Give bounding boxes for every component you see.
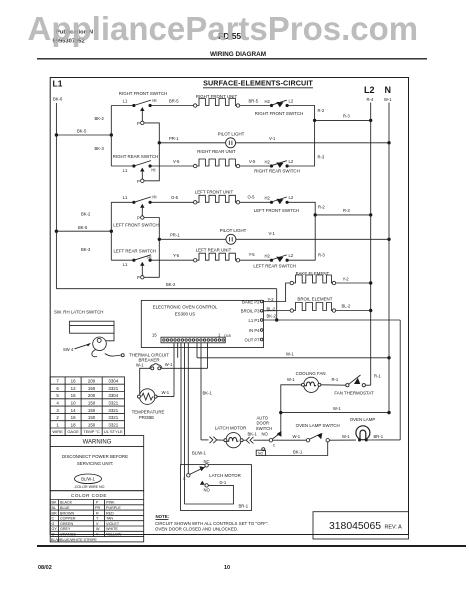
svg-text:W-1: W-1 [136,363,144,368]
svg-text:16: 16 [71,393,76,398]
svg-text:TEMPERATURE: TEMPERATURE [132,410,165,415]
svg-text:BLUE/WHITE STRIPE: BLUE/WHITE STRIPE [60,538,97,542]
wire R-3 left group to L2 bus [315,214,371,216]
left front switch left half [111,195,159,240]
wire V-5 to right rear unit [150,165,195,167]
latch NO contact [200,481,205,485]
svg-text:GREEN: GREEN [60,522,73,526]
svg-text:SERVICING UNIT:: SERVICING UNIT: [77,461,113,466]
svg-text:5: 5 [56,393,59,398]
svg-text:BK-2: BK-2 [81,212,91,217]
svg-text:L1: L1 [53,79,63,89]
svg-text:P: P [137,215,140,220]
svg-text:RIGHT FRONT SWITCH: RIGHT FRONT SWITCH [119,91,167,96]
svg-text:BLUE: BLUE [60,506,70,510]
svg-text:G: G [52,522,55,526]
svg-text:WHITE: WHITE [106,527,118,531]
svg-text:BK: BK [52,501,57,505]
bake element [290,271,336,284]
svg-text:OUT P7: OUT P7 [244,337,260,342]
wire V-5 to H2 rear [240,165,272,167]
svg-text:4: 4 [56,401,59,406]
svg-text:O: O [52,533,55,537]
wire Y-5 to H2 left rear [240,259,272,261]
svg-text:18: 18 [71,422,76,427]
latch motor M1 [215,426,247,448]
svg-text:1: 1 [56,422,59,427]
svg-text:L2: L2 [289,195,294,200]
svg-text:PURPLE: PURPLE [106,506,121,510]
wire harness drop 7 BK-1 latch motor [200,343,202,440]
svg-text:BR-5: BR-5 [249,99,259,104]
svg-text:UL STYLE: UL STYLE [104,429,123,434]
svg-text:V-1: V-1 [269,231,276,236]
svg-text:SURFACE-ELEMENTS-CIRCUIT: SURFACE-ELEMENTS-CIRCUIT [203,79,313,88]
warning box [50,436,144,491]
svg-text:N: N [385,85,392,95]
node PR-1 junction [158,141,161,144]
svg-text:L1: L1 [123,98,128,103]
svg-text:V-1: V-1 [269,136,276,141]
part number box 318045065 REV: A [313,512,409,539]
svg-text:R-1: R-1 [332,377,339,382]
svg-text:NO: NO [262,432,269,437]
svg-text:WIRING DIAGRAM: WIRING DIAGRAM [210,51,266,58]
wire R-3 left rear riser [287,215,315,260]
svg-text:150: 150 [88,422,96,427]
svg-text:PR-1: PR-1 [170,232,180,237]
svg-text:GREY: GREY [60,527,71,531]
svg-text:R: R [96,511,99,515]
wire harness drop 8 to breaker [207,343,209,369]
svg-text:LEFT FRONT UNIT: LEFT FRONT UNIT [195,190,234,195]
svg-text:15: 15 [152,333,157,338]
svg-text:T: T [96,517,99,521]
svg-text:LEFT FRONT SWITCH: LEFT FRONT SWITCH [113,223,158,228]
electronic oven control U1 box [141,300,263,347]
svg-text:YELLOW: YELLOW [106,533,122,537]
svg-text:R-4: R-4 [367,97,374,102]
svg-text:10: 10 [71,401,76,406]
latch blade C [187,474,190,477]
svg-text:BL: BL [52,506,57,510]
wire harness drop 2 [177,343,179,358]
svg-text:V-5: V-5 [249,159,256,164]
svg-text:-COLOR WIRE NO: -COLOR WIRE NO [74,485,105,489]
svg-text:ES300 US: ES300 US [175,312,196,317]
svg-text:H2: H2 [265,254,271,259]
wire PR-1 / V-1 pilot 1 [159,142,389,144]
wire group2 riser [110,202,112,260]
wire latch NO loop [185,485,234,504]
wire thermostat to L2 bus [365,384,370,386]
svg-text:R-3: R-3 [318,253,325,258]
wire R-3 to L2 bus [315,119,371,121]
broil element [290,297,336,313]
svg-text:BROIL P3: BROIL P3 [241,309,260,314]
svg-text:150: 150 [88,401,96,406]
right rear switch left half [111,143,159,184]
svg-text:C: C [273,443,276,447]
svg-text:OVEN DOOR CLOSED AND UNLOCKED.: OVEN DOOR CLOSED AND UNLOCKED. [155,527,238,532]
svg-text:08/02: 08/02 [38,565,52,571]
left rear switch left half [111,239,159,280]
svg-text:ELECTRONIC OVEN CONTROL: ELECTRONIC OVEN CONTROL [153,305,218,310]
svg-text:150: 150 [88,415,96,420]
wire O-5 to left front unit [150,201,195,203]
node PR-1 junction 2 [158,238,161,241]
svg-text:BK-2: BK-2 [166,282,176,287]
wire fan left riser W-1 [281,385,302,413]
svg-text:BR-5: BR-5 [169,98,179,103]
svg-text:BL-2: BL-2 [342,304,352,309]
svg-text:P: P [96,501,99,505]
wire auto door to lamp switch [273,439,307,441]
svg-text:OVEN LAMP SWITCH: OVEN LAMP SWITCH [296,423,340,428]
svg-text:LATCH MOTOR: LATCH MOTOR [209,473,241,478]
svg-text:BK-1: BK-1 [293,450,303,455]
latch NC contact [205,464,208,467]
svg-text:PR: PR [95,506,100,510]
wire BK-5 tap 2 [56,230,111,232]
svg-text:LEFT FRONT SWITCH: LEFT FRONT SWITCH [254,208,299,213]
wire Y-2 bake to EOC [264,283,291,302]
svg-text:TAN: TAN [106,517,113,521]
connector plug arrows right [243,439,246,441]
publication number text [53,30,242,45]
svg-text:W-1: W-1 [293,434,301,439]
svg-text:7: 7 [56,379,59,384]
RH latch switch sketch [54,310,124,357]
svg-text:PILOT LIGHT: PILOT LIGHT [218,132,245,137]
fan thermostat [334,375,374,396]
svg-text:TEMP °C: TEMP °C [83,429,100,434]
svg-text:PILOT LIGHT: PILOT LIGHT [220,228,247,233]
svg-text:H2: H2 [265,196,271,201]
svg-text:NC: NC [204,459,210,464]
svg-text:10: 10 [224,565,230,571]
wire harness drop 5 to latch blade [187,343,189,474]
outer diagram border [50,78,408,535]
wire BK-1 NC bypass [265,442,327,456]
svg-text:LEFT REAR UNIT: LEFT REAR UNIT [196,248,232,253]
svg-text:Y-2: Y-2 [268,297,275,302]
svg-text:200: 200 [88,379,96,384]
svg-text:GAGE: GAGE [67,429,79,434]
svg-text:W-1: W-1 [342,434,350,439]
svg-text:BK-5: BK-5 [77,129,87,134]
svg-text:200: 200 [88,393,96,398]
wire R-2 left group [287,202,315,215]
svg-text:SW. RH LATCH SWITCH: SW. RH LATCH SWITCH [54,310,103,315]
svg-text:R-3: R-3 [343,208,350,213]
svg-text:CIRCUIT SHOWN WITH ALL CONTROL: CIRCUIT SHOWN WITH ALL CONTROLS SET TO "… [155,521,269,526]
wire harness drop 4 to latch NO loop [184,343,186,504]
svg-text:P: P [137,179,140,184]
svg-text:3321: 3321 [108,386,118,391]
svg-text:L2: L2 [364,85,375,95]
wire Y-5 to left rear unit [150,259,195,261]
wire probe to harness W-1 [157,396,174,398]
svg-text:OVEN LAMP: OVEN LAMP [350,417,376,422]
svg-text:L1: L1 [123,262,128,267]
svg-text:DISCONNECT POWER BEFORE: DISCONNECT POWER BEFORE [62,454,128,459]
svg-text:GY: GY [52,527,58,531]
oven lamp switch [296,423,340,442]
wire R-2 [287,106,315,121]
svg-text:W-1: W-1 [384,97,392,102]
svg-text:BL/W-1: BL/W-1 [192,451,207,456]
svg-text:HI: HI [151,168,155,173]
svg-text:14: 14 [71,408,76,413]
svg-text:BK-1: BK-1 [203,391,213,396]
auto door switch [256,413,282,448]
svg-text:6: 6 [56,386,59,391]
wire N bus W-1 [388,103,390,413]
wire BL-2 broil to EOC [264,310,291,312]
svg-text:RIGHT FRONT SWITCH: RIGHT FRONT SWITCH [255,111,303,116]
left front unit [194,190,240,205]
wire L1 P1 to lamp feed riser [264,319,401,321]
svg-text:WIRE: WIRE [52,429,63,434]
wire PR-1 / V-1 pilot 2 [159,238,389,240]
svg-text:V-5: V-5 [173,159,180,164]
svg-text:3304: 3304 [108,379,118,384]
wire harness drop 6 W-1 [196,343,198,358]
svg-text:BK-1: BK-1 [248,432,258,437]
svg-text:PR-1: PR-1 [169,136,179,141]
wire fan to thermostat R-1 [321,384,346,386]
svg-text:BROIL ELEMENT: BROIL ELEMENT [297,297,332,302]
svg-text:NO: NO [258,452,263,456]
svg-text:P: P [137,275,140,280]
svg-text:HI: HI [152,98,156,103]
svg-text:R-3: R-3 [318,155,325,160]
svg-text:BL-2: BL-2 [267,306,277,311]
wire BK-5 tap 1 [56,134,111,136]
right front unit [194,94,240,107]
pilot light 2 [220,228,247,245]
svg-text:W-1: W-1 [165,362,173,367]
svg-text:W-1: W-1 [162,390,170,395]
svg-text:BLACK: BLACK [60,501,73,505]
svg-text:PINK: PINK [106,501,115,505]
svg-text:L2: L2 [289,253,294,258]
svg-text:FAN THERMOSTAT: FAN THERMOSTAT [334,391,374,396]
svg-text:R-2: R-2 [318,108,325,113]
svg-text:RED: RED [106,511,114,515]
oven lamp E1 [350,417,376,442]
connector P5 strip [152,333,232,343]
svg-text:RIGHT REAR UNIT: RIGHT REAR UNIT [197,149,236,154]
left front switch right half [254,195,299,213]
svg-text:PROBE: PROBE [139,415,154,420]
footer rule [37,545,466,547]
svg-text:H2: H2 [265,159,271,164]
wire BL-2 broil to L2 bus [336,310,371,312]
svg-text:R-1: R-1 [374,374,381,379]
svg-text:P: P [137,121,140,126]
note text [155,514,269,532]
svg-text:W-1: W-1 [286,351,294,356]
svg-text:318045065: 318045065 [329,521,381,532]
svg-text:150: 150 [88,386,96,391]
latch motor assembly box [181,465,252,511]
svg-text:COPPER: COPPER [60,517,76,521]
svg-text:W-1: W-1 [333,406,341,411]
svg-text:WARNING: WARNING [83,440,112,446]
wire BR-5 to H2 [240,105,272,107]
svg-text:Y-5: Y-5 [249,252,256,257]
svg-text:RIGHT REAR SWITCH: RIGHT REAR SWITCH [113,154,159,159]
wire lamp switch to lamp W-1 [329,439,356,441]
wire BK-2 from bus to L1 P1 [276,289,278,320]
pilot light 1 [218,132,245,148]
svg-text:L1 P1: L1 P1 [249,318,261,323]
svg-text:COLOR CODE: COLOR CODE [71,493,107,498]
svg-text:BK-5: BK-5 [78,225,88,230]
wire gauge table [50,377,124,436]
svg-text:BL/W-1: BL/W-1 [81,477,95,482]
svg-text:LEFT REAR SWITCH: LEFT REAR SWITCH [113,249,156,254]
wire BR-5 to right front unit [150,105,195,107]
door switch NC contact [256,448,265,456]
svg-text:L2: L2 [289,159,294,164]
svg-text:3304: 3304 [108,393,118,398]
svg-text:150: 150 [88,408,96,413]
svg-text:16: 16 [71,379,76,384]
left rear unit [194,248,240,262]
svg-text:2: 2 [56,415,59,420]
svg-text:REV: A: REV: A [385,524,403,530]
svg-text:L1: L1 [123,195,128,200]
svg-text:R-3: R-3 [343,114,350,119]
svg-text:LEFT REAR SWITCH: LEFT REAR SWITCH [253,263,296,268]
svg-text:BR: BR [52,511,57,515]
header rule [37,58,427,60]
svg-text:ORANGE: ORANGE [60,533,77,537]
svg-text:C: C [52,517,55,521]
svg-text:3321: 3321 [108,408,118,413]
svg-text:BK-6: BK-6 [53,97,63,102]
svg-text:BR-1: BR-1 [374,434,384,439]
wire group1 riser [110,106,112,167]
svg-text:BROWN: BROWN [60,511,74,515]
svg-text:R-2: R-2 [318,205,325,210]
cooling fan B1 [296,371,326,392]
svg-text:3321: 3321 [108,422,118,427]
svg-text:AppliancePartsPros.com: AppliancePartsPros.com [28,10,419,47]
wire harness drop 3 to latch box [180,343,182,465]
color code table [50,491,144,542]
wire L1 main bus [55,103,57,289]
svg-text:16: 16 [71,415,76,420]
left rear switch right half [253,253,296,268]
svg-text:NOTE:: NOTE: [156,514,170,519]
wire W-1 to N bus lamp row [281,412,389,414]
wire Y-2 bake to L2 bus [336,282,371,284]
svg-text:BK-2: BK-2 [95,116,105,121]
svg-text:W: W [96,527,100,531]
thermal circuit breaker [129,352,173,370]
right rear unit [194,149,240,168]
svg-text:NO: NO [204,487,211,492]
wire W-1 to N bus [197,357,389,359]
svg-text:IN P4: IN P4 [249,328,260,333]
svg-text:BK-2: BK-2 [267,314,277,319]
svg-text:H2: H2 [265,99,271,104]
svg-text:O-5: O-5 [248,195,256,200]
temperature probe [132,389,165,420]
svg-text:Y-2: Y-2 [343,277,350,282]
svg-text:RIGHT REAR SWITCH: RIGHT REAR SWITCH [254,169,300,174]
right front switch left half [111,91,167,143]
wire R-3 rear riser [287,120,315,166]
svg-text:COOLING FAN: COOLING FAN [296,371,326,376]
svg-text:BR-1: BR-1 [239,504,249,509]
wire harness drop 1 to probe [173,343,175,397]
svg-text:3321: 3321 [108,415,118,420]
svg-text:3321: 3321 [108,401,118,406]
svg-text:LATCH MOTOR: LATCH MOTOR [215,426,247,431]
wire BR-1 lamp to L1 riser [368,439,400,441]
svg-text:SW 4: SW 4 [63,347,74,352]
node W-1 lamp row junction [279,411,282,414]
wire L2 bus R-4 [370,103,372,386]
wire O-5 to H2 left front [240,201,272,203]
svg-text:BAKE P2: BAKE P2 [242,299,260,304]
svg-text:BK-3: BK-3 [81,247,91,252]
svg-text:BK-3: BK-3 [95,146,105,151]
wire breaker right to harness [161,367,208,369]
svg-text:12: 12 [71,386,76,391]
right front switch right half [255,98,303,116]
svg-text:C: C [183,477,186,481]
svg-text:3: 3 [56,408,59,413]
wire BK-1 harness to latch motor [201,439,209,441]
svg-text:L1: L1 [123,168,128,173]
svg-text:L2: L2 [289,98,294,103]
svg-text:Y-5: Y-5 [173,253,180,258]
svg-text:VIOLET: VIOLET [106,522,120,526]
wire breaker left down to probe [140,368,151,395]
svg-text:D-1: D-1 [220,480,227,485]
wire BK-2 bottom feed [56,288,276,290]
svg-text:O-5: O-5 [171,195,179,200]
right rear switch right half [254,159,300,174]
svg-text:V: V [96,522,99,526]
connector plug arrows left [210,437,217,444]
svg-text:HI: HI [147,255,151,260]
svg-text:HI: HI [152,195,156,200]
svg-text:W-1: W-1 [287,377,295,382]
svg-text:SWITCH: SWITCH [256,426,273,431]
